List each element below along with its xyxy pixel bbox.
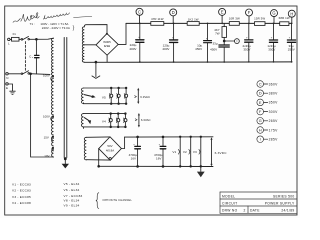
svg-text:400V: 400V: [162, 47, 169, 51]
dashed gang link of switch: [24, 42, 26, 71]
svg-text:10R 3W: 10R 3W: [229, 17, 240, 21]
node I: [224, 40, 234, 42]
svg-text:}: }: [73, 25, 75, 31]
svg-text:F1: F1: [13, 32, 17, 36]
svg-text:DRW NO: DRW NO: [222, 209, 238, 213]
svg-text:V6 - EL34: V6 - EL34: [64, 188, 80, 192]
heater CT arrow 2: [84, 118, 90, 122]
svg-text:x: x: [32, 57, 34, 59]
svg-text:V8 - EL34: V8 - EL34: [64, 199, 80, 203]
svg-text:6.3VAC: 6.3VAC: [140, 95, 150, 99]
node E voltage: [257, 99, 278, 106]
svg-text:450V: 450V: [195, 47, 202, 51]
svg-text:V2: V2: [183, 150, 187, 154]
resistor 1K2 1W: [187, 22, 199, 26]
fuse F1: [12, 37, 20, 41]
svg-text:E: E: [6, 86, 8, 90]
resistor 15R 3W: [255, 22, 266, 26]
svg-text:380V: 380V: [269, 92, 279, 96]
svg-text:N: N: [6, 76, 8, 80]
svg-text:360V: 360V: [269, 82, 279, 86]
svg-text:I: I: [236, 39, 237, 43]
heater V7: [118, 88, 120, 104]
node D voltage: [257, 90, 278, 97]
wire live to primary: [30, 38, 54, 39]
svg-text:V5 - EL34: V5 - EL34: [64, 182, 80, 186]
heater winding 1: [82, 88, 84, 103]
wire HT coil mid to bridge left: [84, 44, 96, 46]
heater V2: [190, 137, 192, 167]
ground LT: [200, 166, 202, 171]
svg-text:1K2 1W: 1K2 1W: [188, 17, 199, 21]
wire earth: [8, 84, 12, 91]
terminal E: [6, 83, 8, 85]
wire LT minus down: [98, 149, 100, 167]
resistor 47R 11W: [151, 22, 164, 26]
svg-text:24/1/89: 24/1/89: [281, 209, 294, 213]
svg-text:350V: 350V: [243, 47, 250, 51]
svg-text:V9 - EL34: V9 - EL34: [64, 204, 80, 208]
transformer T1 primary winding: [51, 38, 53, 157]
bridge rectifier W005: [96, 34, 118, 56]
svg-text:15V: 15V: [44, 135, 49, 139]
T1 annotation: [30, 22, 75, 31]
heater V4b: [117, 114, 119, 127]
svg-text:V1 - ECC83: V1 - ECC83: [12, 182, 31, 186]
svg-text:V5: V5: [102, 96, 106, 100]
svg-text:220V - 240V = T3.0A: 220V - 240V = T3.0A: [42, 26, 70, 30]
capacitor Cx: [35, 39, 37, 55]
svg-text:16V: 16V: [156, 156, 161, 160]
svg-text:285V: 285V: [269, 138, 279, 142]
svg-text:V3: V3: [193, 150, 197, 154]
svg-text:OPPOSITE CHANNEL: OPPOSITE CHANNEL: [102, 198, 132, 202]
svg-text:C: C: [259, 82, 262, 86]
node I voltage: [257, 136, 278, 143]
node G voltage: [257, 118, 278, 125]
resistor 4K7 7W (vertical, node E): [223, 23, 225, 26]
svg-text:E: E: [259, 101, 262, 105]
node G: [271, 10, 278, 17]
svg-text:V2 - ECC83: V2 - ECC83: [12, 189, 31, 193]
svg-text:400V: 400V: [129, 47, 136, 51]
opposite channel brace: [96, 193, 99, 209]
svg-text:+: +: [289, 37, 291, 40]
6.3VAC arrow row2: [138, 115, 140, 127]
svg-text:450V: 450V: [210, 48, 217, 52]
node D: [170, 9, 177, 16]
node F: [246, 9, 253, 16]
node E: [219, 8, 226, 15]
6.3VDC arrow: [211, 139, 213, 165]
svg-text:+: +: [246, 37, 248, 40]
node H voltage: [257, 127, 278, 134]
svg-text:DATE: DATE: [250, 209, 260, 213]
svg-text:G: G: [259, 119, 262, 123]
core screen to chassis arrow: [64, 158, 66, 165]
svg-text:1/1A: 1/1A: [104, 44, 111, 48]
resistor 68R 1W: [280, 22, 289, 26]
switch S1a: [21, 39, 23, 41]
svg-text:W005: W005: [103, 40, 111, 44]
svg-text:15R 3W: 15R 3W: [254, 17, 265, 21]
svg-text:V3 - ECC85: V3 - ECC85: [12, 195, 31, 199]
svg-text:H: H: [259, 128, 262, 132]
transformer core: [64, 38, 67, 158]
voltage table: [257, 81, 278, 143]
svg-text:4/0.8A: 4/0.8A: [106, 148, 114, 152]
svg-text:CIRCUIT: CIRCUIT: [222, 201, 237, 205]
wire neutral down to primary bottom: [31, 74, 54, 157]
tap circles: [52, 76, 53, 77]
node C voltage: [257, 81, 278, 88]
wire HT coil bottom / ground rail: [84, 61, 292, 63]
capacitor 10u 450V: [207, 23, 209, 62]
svg-text:D: D: [259, 92, 262, 96]
svg-text:16V: 16V: [131, 156, 136, 160]
resistor 10R 3W: [229, 22, 239, 26]
heater V6: [110, 88, 112, 104]
title block: [220, 192, 297, 213]
capacitor 4700u 16V (2): [162, 137, 164, 167]
HT top rail: [126, 22, 292, 24]
capacitor 33u 450V: [219, 45, 229, 47]
wires LT coil to bridge: [86, 137, 110, 160]
wire bridge - to ground rail: [106, 55, 108, 62]
svg-text:T1 :: T1 :: [30, 22, 35, 26]
svg-text:SERIES 500: SERIES 500: [273, 194, 295, 198]
tap labels: [43, 73, 50, 158]
border frame: [5, 6, 297, 215]
capacitor 2x33u 350V (node F): [248, 23, 250, 62]
wire HT coil top to bridge: [84, 25, 107, 34]
terminal N: [6, 73, 8, 75]
primary tap hooks: [51, 76, 54, 81]
capacitor 4700u 16V (1): [137, 137, 139, 167]
svg-text:E: E: [221, 10, 224, 15]
svg-text:L: L: [8, 42, 10, 46]
6.3VAC arrow row1: [137, 89, 139, 102]
node C: [136, 8, 143, 15]
node F voltage: [257, 108, 278, 115]
heater CT arrow: [84, 95, 93, 97]
HT secondary winding: [82, 27, 84, 45]
svg-text:6.3VDC: 6.3VDC: [215, 151, 228, 155]
svg-text:MODEL: MODEL: [222, 194, 235, 198]
heater V8: [125, 88, 127, 104]
wire LT plus: [121, 137, 124, 148]
terminal L: [8, 38, 10, 40]
ground (chassis): [10, 91, 16, 94]
svg-text:100V: 100V: [43, 73, 50, 77]
svg-text:350V: 350V: [269, 101, 279, 105]
svg-text:7W: 7W: [215, 31, 220, 35]
switch S1b: [8, 73, 21, 75]
node live/Cx junction: [36, 38, 38, 40]
svg-text:V4 - ECC88: V4 - ECC88: [12, 201, 31, 205]
svg-text:H: H: [290, 11, 293, 16]
svg-text:265V: 265V: [269, 119, 279, 123]
svg-text:350V: 350V: [268, 47, 275, 51]
svg-text:10V: 10V: [44, 154, 49, 158]
heater V4c: [124, 114, 126, 127]
svg-text:2: 2: [244, 209, 246, 213]
node neutral junction: [30, 73, 32, 75]
svg-text:47R 11W: 47R 11W: [151, 17, 164, 21]
capacitor 220u 400V (node C): [139, 23, 141, 62]
svg-text:+: +: [271, 37, 273, 40]
signature Audio Innovations: [13, 13, 92, 23]
svg-text:POWER SUPPLY: POWER SUPPLY: [265, 201, 295, 205]
wire: [10, 38, 21, 40]
svg-text:300V: 300V: [269, 110, 279, 114]
svg-text:I: I: [260, 138, 261, 142]
svg-text:175V: 175V: [269, 128, 279, 132]
heater winding 2: [81, 114, 83, 127]
ground main HT: [95, 61, 97, 63]
svg-text:68R 1W: 68R 1W: [279, 16, 290, 20]
capacitor 120u 400V (node D): [173, 23, 175, 62]
svg-text:C: C: [138, 9, 141, 14]
LT minus rail: [99, 165, 213, 167]
valve legend: [12, 182, 83, 208]
capacitor 1x33u 350V (node G): [273, 23, 275, 62]
svg-text:V7 - ECC83: V7 - ECC83: [64, 194, 83, 198]
svg-text:D: D: [172, 10, 175, 15]
capacitor 33u 250V (node H): [291, 23, 293, 62]
svg-text:100V: 100V: [43, 115, 50, 119]
heater V1: [179, 137, 181, 167]
svg-text:250V: 250V: [288, 47, 295, 51]
LT plus rail: [125, 136, 213, 138]
rail junction dots: [139, 23, 292, 25]
heater V3: [200, 137, 202, 167]
wire neutral: [30, 73, 51, 76]
bridge rectifier SKB: [99, 137, 122, 161]
node H: [288, 10, 295, 17]
svg-text:G: G: [272, 11, 275, 16]
svg-text:V4: V4: [102, 120, 106, 124]
heater V4a: [110, 114, 112, 127]
svg-text:33µ: 33µ: [213, 42, 218, 46]
svg-text:6.3VAC: 6.3VAC: [141, 118, 151, 122]
wire bridge + output to HT rail: [118, 23, 126, 44]
svg-text:V1: V1: [172, 150, 176, 154]
ground rail junction dots: [139, 61, 292, 63]
LT winding: [84, 137, 86, 160]
